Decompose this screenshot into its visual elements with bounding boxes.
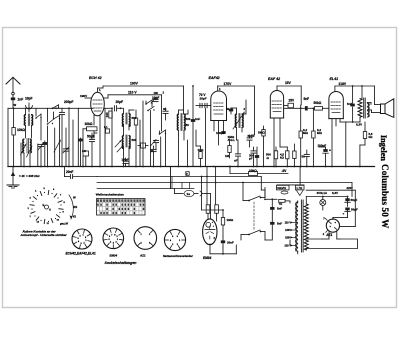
transformer output OT: [358, 98, 369, 118]
label EM34: [203, 256, 212, 260]
svg-text:Achsstumpf - Unterseite sichtb: Achsstumpf - Unterseite sichtbar: [20, 233, 68, 237]
svg-text:Ingelen: Ingelen: [379, 135, 388, 161]
switch band contact b: [47, 108, 54, 166]
svg-text:20pF: 20pF: [116, 100, 124, 104]
resistor 5MOhm: [258, 126, 265, 167]
wire heater line 2: [97, 182, 352, 184]
wire OT primary top: [360, 85, 363, 99]
wire 50uF to AZ1: [333, 216, 348, 220]
wires osc switch to bus: [143, 101, 151, 167]
wire mixer to bus: [104, 108, 106, 166]
svg-text:EM34: EM34: [203, 256, 212, 260]
svg-text:EM34: EM34: [110, 253, 118, 257]
wire 15V rail: [277, 81, 301, 105]
svg-text:190V: 190V: [130, 82, 139, 86]
svg-text:Netzanschlussstecker: Netzanschlussstecker: [163, 254, 194, 258]
antenna: [6, 77, 20, 97]
svg-text:110 V: 110 V: [128, 91, 137, 95]
diagram waveband switch: [28, 188, 78, 226]
resistor 0.2MOhm a: [299, 105, 308, 167]
svg-text:5nF: 5nF: [304, 97, 310, 101]
capacitor 20nF bias: [65, 167, 98, 179]
socket AZ1: [134, 227, 157, 258]
socket mains plug: [163, 229, 194, 257]
junction dots input rail: [13, 107, 70, 109]
capacitor 1nF osc: [191, 117, 201, 167]
capacitor 20nF EM34: [202, 209, 234, 247]
svg-text:pF: pF: [249, 157, 253, 161]
svg-text:30: 30: [163, 107, 167, 111]
label IF frequency: [19, 174, 40, 178]
capacitor osc padder trimmer: [151, 140, 159, 151]
wire AZ1 anode return: [340, 190, 355, 226]
wire feedback tap: [346, 122, 362, 127]
transformer IF2: [233, 107, 246, 129]
capacitor 50pF cathode: [87, 131, 97, 167]
svg-text:15V: 15V: [285, 81, 292, 85]
wire IF2 feed drop: [252, 86, 255, 135]
svg-text:1,7Ω: 1,7Ω: [296, 186, 302, 190]
wires transformer primary: [236, 201, 297, 254]
svg-text:W: W: [73, 196, 76, 200]
wires EM34 top pins: [205, 194, 217, 222]
svg-text:1a: 1a: [187, 192, 191, 196]
svg-text:Columbus 50 W: Columbus 50 W: [380, 164, 390, 228]
wire main bus: [8, 166, 375, 168]
transformer antenna coil lower: [21, 139, 33, 158]
svg-text:5nF: 5nF: [277, 206, 282, 210]
link switch mechanical: [253, 202, 255, 230]
wire antenna coil links: [26, 108, 32, 138]
wire line 3: [97, 188, 194, 190]
switch oscillator contacts: [145, 100, 155, 111]
node 1a: [175, 189, 205, 197]
resistors EM34 anode: [206, 202, 218, 213]
wire 190V rail: [98, 82, 184, 89]
tube EAF42 V3: [270, 86, 283, 118]
resistor 10kOhm cathode: [83, 115, 97, 150]
svg-text:ECH 42: ECH 42: [89, 76, 102, 80]
wires IF1: [124, 108, 135, 166]
label brand Ingelen: [379, 135, 388, 161]
wires EAF42-2 pins: [273, 118, 275, 167]
resistor IF1 damping: [134, 110, 140, 167]
svg-text:10kΩ: 10kΩ: [85, 122, 93, 126]
capacitor 5nF tone: [347, 85, 355, 122]
label AGC net: [219, 121, 236, 146]
svg-text:AZ1: AZ1: [139, 253, 146, 257]
svg-text:gez.W: gez.W: [59, 222, 68, 226]
tube AZ1 rectifier: [323, 216, 340, 236]
svg-text:10kΩ: 10kΩ: [17, 128, 25, 132]
svg-text:4V/0,1A: 4V/0,1A: [317, 191, 328, 195]
resistor 50kOhm grid EL41: [314, 101, 329, 110]
wire 220V secondary: [306, 186, 355, 190]
capacitor 25pF padder: [151, 146, 157, 167]
wire OT primary bottom: [353, 117, 360, 122]
svg-text:nF: nF: [234, 159, 238, 163]
resistor 10kOhm antenna shunt: [12, 108, 26, 166]
capacitor 100pF det: [214, 121, 226, 136]
wire left vertical: [7, 108, 9, 166]
svg-text:EL41: EL41: [330, 77, 339, 81]
capacitor trimmer b: [38, 141, 47, 167]
svg-text:25V: 25V: [289, 99, 295, 103]
label model Columbus 50 W: [380, 164, 390, 228]
transformer antenna coil upper: [24, 114, 33, 126]
capacitor 30pF: [163, 107, 168, 120]
wire heater line 1: [97, 176, 265, 198]
ground earth symbol: [7, 167, 19, 189]
svg-text:20nF: 20nF: [227, 241, 234, 245]
caption socket layouts: [105, 261, 137, 265]
svg-text:200pF: 200pF: [64, 100, 73, 104]
svg-text:110 V: 110 V: [285, 222, 292, 225]
svg-text:E: E: [43, 203, 45, 207]
label AZ1: [325, 233, 332, 237]
transformer power TR: [284, 200, 308, 252]
label EAF42 first: [209, 76, 220, 80]
wire AZ1 cathode: [332, 218, 334, 220]
svg-text:50μF: 50μF: [351, 208, 358, 212]
capacitor 10pF trimmer: [25, 97, 32, 113]
capacitor 50uF a: [345, 196, 358, 207]
label EL41: [330, 77, 339, 81]
wires AZ1 heater loop: [306, 231, 357, 249]
transformer IF1: [122, 113, 137, 149]
svg-text:W: W: [14, 103, 17, 107]
capacitor 5nF coupling: [284, 97, 314, 111]
tube ECH42 U1: [91, 88, 105, 116]
svg-text:50pF: 50pF: [87, 134, 95, 138]
wire mains feed: [277, 167, 304, 185]
switch wavechange 1: [52, 105, 60, 109]
svg-text:1nF: 1nF: [195, 117, 200, 121]
svg-text:5nF: 5nF: [277, 221, 282, 225]
capacitors 5nF mains filter: [270, 198, 282, 240]
switch mains pole 1: [242, 182, 265, 202]
svg-text:≈ 2F = 468 kHz: ≈ 2F = 468 kHz: [19, 174, 40, 178]
svg-text:EAF42: EAF42: [209, 76, 220, 80]
resistor screen EAF42-2: [284, 99, 295, 108]
capacitor 20pF grid EAF42: [196, 93, 211, 108]
svg-text:130V: 130V: [285, 229, 291, 232]
svg-text:ECH42,EAF42,EL41: ECH42,EAF42,EL41: [66, 251, 96, 255]
wire stubs lines: [182, 172, 190, 189]
capacitor 200pF: [59, 100, 73, 167]
svg-text:20pF: 20pF: [200, 97, 207, 101]
wires osc coil: [179, 110, 189, 167]
wire 110V rail: [104, 91, 162, 98]
svg-text:KII: KII: [74, 205, 78, 209]
resistor 5.6kOhm feedback: [352, 121, 373, 145]
svg-text:MΩ: MΩ: [317, 131, 322, 135]
resistor 1.7 Ohm mains: [296, 185, 305, 195]
resistor 1MOhm AGC: [225, 139, 231, 158]
capacitor 1nF antenna coupling: [11, 97, 23, 106]
wire tube pin to bus: [99, 115, 101, 167]
svg-text:TR: TR: [279, 202, 283, 206]
wire grid return: [77, 108, 79, 166]
svg-text:6,3V: 6,3V: [356, 123, 362, 127]
socket EM34: [103, 228, 124, 257]
svg-text:A.G.L: A.G.L: [228, 138, 236, 142]
wires EL41 pins: [332, 119, 346, 167]
wire 170V rail: [218, 82, 255, 87]
capacitor 20pF coupling: [104, 100, 123, 111]
svg-text:Sockelschaltungen: Sockelschaltungen: [105, 261, 137, 265]
switch band contact a: [35, 108, 42, 140]
svg-text:+: +: [329, 149, 331, 153]
switch wavechange 2: [53, 112, 61, 167]
wire 218V rail: [335, 82, 375, 86]
svg-text:EAF 42: EAF 42: [268, 77, 280, 81]
svg-text:63Ω/W: 63Ω/W: [277, 186, 286, 190]
svg-text:+: +: [343, 212, 345, 216]
capacitor det bypass: [234, 140, 241, 167]
wires IF2: [226, 100, 246, 140]
svg-text:218V: 218V: [339, 82, 347, 86]
svg-text:1nF: 1nF: [18, 98, 24, 102]
svg-text:20nF: 20nF: [66, 170, 73, 174]
resistor 1kOhm osc: [198, 146, 204, 167]
svg-text:MΩ: MΩ: [303, 131, 308, 135]
capacitor 50pF det: [247, 134, 255, 147]
wire input rail: [8, 107, 93, 109]
switch mains pole 2: [241, 230, 265, 235]
tube EL41 V4: [329, 86, 343, 119]
socket rimlock ECH42 EAF42 EL41: [66, 229, 96, 255]
component box osc: [138, 143, 148, 148]
svg-text:50μF: 50μF: [351, 198, 358, 202]
table waveband switch plan: [96, 193, 145, 215]
svg-text:6,3V: 6,3V: [332, 191, 338, 195]
capacitor 100uF cathode: [318, 144, 332, 167]
transformer oscillator coil: [177, 114, 191, 131]
wires EM34 feeds: [202, 167, 217, 211]
label EAF42 second: [268, 77, 280, 81]
svg-text:190V: 190V: [80, 94, 88, 98]
switch osc band: [159, 130, 167, 135]
wire antenna to rail: [12, 100, 14, 108]
resistor 10kOhm bias line: [229, 166, 288, 176]
resistor 500 Ohm: [255, 147, 278, 167]
svg-text:1MΩ: 1MΩ: [227, 218, 234, 222]
wires EM34 cathode: [210, 244, 236, 255]
tube EAF42 V2: [211, 87, 227, 121]
label 6.3V heater: [332, 191, 338, 195]
tube EM34 indicator: [203, 219, 217, 245]
wire drops to lower right: [171, 167, 173, 189]
svg-text:0,1: 0,1: [104, 126, 108, 129]
wire oscillator anode drops: [184, 85, 194, 118]
wire HT secondary top: [306, 197, 347, 251]
wires antenna coils to bus: [21, 143, 30, 167]
resistor 100 Ohm: [104, 108, 129, 166]
wires output stage to bus: [346, 122, 365, 167]
resistor 63 Ohm mains: [277, 185, 290, 194]
capacitor 300pF: [249, 147, 256, 167]
capacitor 50uF b: [343, 208, 358, 217]
svg-text:50: 50: [226, 107, 230, 111]
svg-text:A: A: [49, 208, 51, 212]
svg-text:50kΩ: 50kΩ: [314, 101, 322, 105]
wires osc to bus: [188, 108, 206, 166]
svg-text:100: 100: [154, 91, 159, 95]
speaker LS: [381, 99, 394, 118]
wire HT to heater line: [351, 183, 353, 197]
svg-text:30: 30: [186, 123, 190, 127]
label ECH42: [89, 76, 102, 80]
svg-text:100pF: 100pF: [216, 131, 225, 135]
svg-text:10kΩ: 10kΩ: [249, 169, 257, 173]
svg-text:500: 500: [186, 117, 191, 121]
lamp pilot 4V: [317, 191, 328, 210]
svg-text:150V: 150V: [285, 237, 291, 240]
wires speaker: [367, 86, 380, 113]
wires padder to bus: [161, 134, 166, 167]
component LO box: [82, 149, 89, 167]
wires mains switch: [265, 188, 272, 241]
resistor bias: [293, 144, 296, 167]
svg-text:50pF: 50pF: [248, 134, 255, 138]
capacitor 50nF: [302, 150, 310, 167]
svg-text:KI: KI: [73, 215, 76, 219]
caption switch note: [20, 229, 68, 237]
wire screen feed: [80, 94, 91, 98]
wire switch to transformer: [264, 198, 290, 206]
resistor 1MOhm EM34: [221, 210, 233, 237]
svg-text:Wellenschalterplan: Wellenschalterplan: [96, 193, 124, 197]
wires to bus left block: [69, 108, 83, 166]
svg-text:1M: 1M: [225, 154, 230, 158]
resistor 0.2MOhm b: [312, 107, 323, 166]
trimmer arrows IF1: [115, 140, 124, 152]
svg-text:170V: 170V: [224, 82, 233, 86]
wire 110V drop: [154, 90, 165, 131]
resistor 4.5kOhm cathode: [280, 118, 289, 167]
svg-text:10pF: 10pF: [25, 97, 32, 101]
svg-text:100: 100: [105, 112, 109, 117]
capacitor 10pF osc trimmer: [151, 96, 159, 103]
junction dots main bus: [13, 166, 361, 168]
